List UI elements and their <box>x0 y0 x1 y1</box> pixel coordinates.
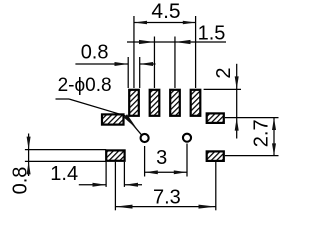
svg-text:2.7: 2.7 <box>250 119 272 147</box>
dim 0.8 left extension line (LB pad bottom edge) <box>25 160 106 162</box>
dim 1.4 left outside arrow <box>93 183 107 187</box>
dim 2 dimension line <box>236 64 238 139</box>
hole circle 2 <box>183 134 191 142</box>
dim 7.3 left inside arrow <box>115 205 132 209</box>
pad P4 (vertical hatched pad 4) <box>191 90 201 116</box>
dim 1.4 extension line (LB pad right edge) <box>123 162 125 187</box>
dim 1.5 extension line (pad2 center) <box>153 37 155 89</box>
dim 0.8 left bottom outside arrow <box>27 161 31 174</box>
svg-text:0.8: 0.8 <box>81 42 109 64</box>
dim 7.3 dimension line <box>115 206 215 208</box>
dim 2.7 bottom inside arrow <box>272 143 276 155</box>
dim 1.5 right outside arrow <box>175 40 191 44</box>
dim 2.7 dimension line <box>273 118 275 156</box>
dim 3 extension line (circle2 center) <box>186 144 188 177</box>
dim 3 right inside arrow <box>174 170 187 174</box>
svg-text:4.5: 4.5 <box>151 0 180 23</box>
dim 1.4 extension line (LB pad left edge) <box>105 162 107 187</box>
svg-text:0.8: 0.8 <box>10 167 32 195</box>
dim 2.7 top inside arrow <box>272 118 276 130</box>
dim 3 extension line (circle1 center) <box>144 146 146 177</box>
dim 0.8 top dimension line with left tail <box>75 63 128 65</box>
hole circle 1 <box>141 134 149 142</box>
pad right-top (horizontal hatched pad) <box>207 113 224 123</box>
pad P1 (vertical hatched pad 1) <box>129 90 139 116</box>
dim 1.5 left outside arrow <box>139 40 154 44</box>
dim 0.8 top extension line (pad1 right edge) <box>139 57 141 88</box>
svg-text:7.3: 7.3 <box>153 187 181 209</box>
leader line segment 2 <box>125 116 142 135</box>
pad P3 (vertical hatched pad 3) <box>170 90 180 116</box>
dim 1.4 right outside arrow <box>124 183 138 187</box>
dim 4.5 left arrow <box>134 21 147 25</box>
leader line diagonal <box>69 99 125 116</box>
dim 2 top extension line (pad4 top right) <box>204 88 241 90</box>
dim 0.8 top extension line (pad1 left edge) <box>127 57 129 88</box>
dim 0.8 left extension line (LB pad top edge) <box>25 149 106 151</box>
dim 2 top outside arrow <box>235 76 239 89</box>
dim 1.4 dimension line left tail <box>79 184 106 186</box>
dim 7.3 extension line (RB pad center) <box>215 162 217 210</box>
dim 1.5 extension line (pad3 center) <box>174 37 176 89</box>
dim 2 shared extension line (pad bottoms / right-top pad center) <box>225 117 279 119</box>
svg-text:2-ϕ0.8: 2-ϕ0.8 <box>58 75 112 96</box>
leader line segment 1 <box>56 98 70 100</box>
dim 3 dimension line <box>145 171 187 173</box>
svg-text:3: 3 <box>156 147 167 169</box>
dim 7.3 right inside arrow <box>199 205 216 209</box>
dim 4.5 right arrow <box>183 21 196 25</box>
leader arrow at circle 1 <box>124 114 138 129</box>
dim 4.5 dimension line <box>134 22 196 24</box>
pad left-top (horizontal hatched pad) <box>102 114 124 124</box>
dim 1.5 dimension line <box>127 41 226 43</box>
dim 1.4 dimension line right tail <box>124 184 142 186</box>
pad right-bottom (horizontal hatched pad) <box>207 151 224 161</box>
dim 4.5 extension line right (pad4 center) <box>195 16 197 88</box>
dim 0.8 left top outside arrow <box>27 137 31 150</box>
dim 0.8 top left outside arrow <box>115 62 129 66</box>
pad left-bottom (horizontal hatched pad) <box>106 150 124 160</box>
dim 3 left inside arrow <box>145 170 158 174</box>
pad P2 (vertical hatched pad 2) <box>150 90 160 116</box>
dim 7.3 extension line (LB pad center) <box>114 162 116 211</box>
dim 4.5 extension line left (pad1 center) <box>133 16 135 88</box>
dim 0.8 top right outside arrow <box>140 62 153 66</box>
dim 0.8 left dimension line <box>28 134 30 177</box>
dim 2.7 bottom extension line (right-bottom pad center) <box>225 155 279 157</box>
dim 0.8 top right tail <box>140 63 156 65</box>
svg-text:1.5: 1.5 <box>198 23 226 45</box>
svg-text:1.4: 1.4 <box>50 163 78 185</box>
svg-text:2: 2 <box>213 67 235 78</box>
dim 2 bottom outside arrow <box>235 118 239 131</box>
